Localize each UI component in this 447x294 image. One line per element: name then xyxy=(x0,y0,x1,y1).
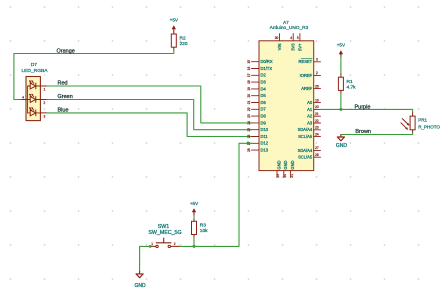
svg-text:D8: D8 xyxy=(261,114,267,119)
svg-text:220: 220 xyxy=(180,41,188,47)
wire switch pin1 to GND riser xyxy=(140,246,151,271)
svg-text:GND: GND xyxy=(283,160,288,169)
svg-text:D7: D7 xyxy=(261,107,267,112)
A7 right pins RESET IOREF AREF A0-A3 SDA SCL xyxy=(314,61,321,63)
power +5V (R2) xyxy=(170,18,179,35)
Arduino module A7 Arduino_UNO_R3 xyxy=(247,20,321,177)
svg-text:AREF: AREF xyxy=(301,86,312,91)
svg-text:3: 3 xyxy=(44,115,46,119)
svg-text:4: 4 xyxy=(22,95,24,99)
ground GND (photoresistor) xyxy=(336,135,348,150)
svg-text:SCL/A5: SCL/A5 xyxy=(298,155,313,160)
svg-text:20: 20 xyxy=(247,94,251,98)
svg-text:Blue: Blue xyxy=(58,108,69,114)
svg-text:15: 15 xyxy=(247,60,251,64)
SW1 contacts and pins 1,2 xyxy=(156,245,158,247)
svg-text:R3: R3 xyxy=(200,223,206,229)
svg-text:D12: D12 xyxy=(261,141,269,146)
svg-text:R1: R1 xyxy=(347,79,353,85)
svg-text:2: 2 xyxy=(174,242,176,246)
LED D7 LED_RGBA xyxy=(21,62,48,121)
svg-text:3V3: 3V3 xyxy=(291,43,296,51)
svg-text:1: 1 xyxy=(151,242,153,246)
svg-text:GND: GND xyxy=(290,160,295,169)
wire R3 bottom to switch row xyxy=(193,238,195,247)
D7 pins 1,2,3,4 xyxy=(40,85,46,87)
svg-text:D7: D7 xyxy=(31,62,38,68)
svg-text:21: 21 xyxy=(315,112,319,116)
svg-text:19: 19 xyxy=(247,87,251,91)
svg-text:Green: Green xyxy=(58,94,73,100)
svg-text:26: 26 xyxy=(315,84,319,88)
svg-text:D13: D13 xyxy=(261,148,269,153)
svg-text:+5V: +5V xyxy=(170,18,179,23)
svg-text:SDA/A4: SDA/A4 xyxy=(298,127,313,132)
wire orange net: R2 to LED pin 4 xyxy=(14,50,174,99)
svg-text:4: 4 xyxy=(290,36,292,40)
svg-text:PR1: PR1 xyxy=(418,118,427,123)
svg-text:D3: D3 xyxy=(261,80,267,85)
svg-text:21: 21 xyxy=(247,101,251,105)
D7 body xyxy=(26,77,40,121)
svg-text:R_PHOTO: R_PHOTO xyxy=(418,124,440,129)
junction at R3 bottom xyxy=(193,245,196,248)
svg-text:D1/TX: D1/TX xyxy=(261,66,273,71)
svg-text:4.7k: 4.7k xyxy=(347,85,357,91)
wire red net: LED pin1 to D9 xyxy=(47,86,252,123)
photoresistor PR1 R_PHOTO xyxy=(401,113,440,133)
svg-text:20: 20 xyxy=(315,105,319,109)
svg-text:R2: R2 xyxy=(180,36,186,42)
svg-text:24: 24 xyxy=(247,121,251,125)
svg-text:2: 2 xyxy=(44,101,46,105)
wire blue net: LED pin3 to D11 xyxy=(47,113,252,137)
D7 internal LED symbols xyxy=(30,83,36,89)
svg-text:5: 5 xyxy=(297,36,299,40)
svg-text:A1: A1 xyxy=(307,107,313,112)
svg-text:D4: D4 xyxy=(261,86,267,91)
svg-text:D0/RX: D0/RX xyxy=(261,59,273,64)
svg-text:30: 30 xyxy=(283,174,287,178)
power +5V (R3) xyxy=(190,201,199,216)
svg-text:A0: A0 xyxy=(307,100,313,105)
svg-text:28: 28 xyxy=(247,148,251,152)
wire +5V to R3 xyxy=(193,216,195,220)
junction R1/A1 xyxy=(339,108,342,111)
svg-text:23: 23 xyxy=(315,126,319,130)
svg-text:D6: D6 xyxy=(261,100,267,105)
svg-text:RESET: RESET xyxy=(299,59,313,64)
wire A1 to photoresistor xyxy=(321,109,413,112)
svg-text:LED_RGBA: LED_RGBA xyxy=(21,68,48,74)
resistor R2 220 xyxy=(171,34,188,50)
svg-text:25: 25 xyxy=(247,128,251,132)
svg-text:SW_MEC_5G: SW_MEC_5G xyxy=(148,230,181,236)
svg-text:D5: D5 xyxy=(261,93,267,98)
svg-text:18: 18 xyxy=(247,80,251,84)
ground GND (switch) xyxy=(135,271,147,289)
svg-text:Orange: Orange xyxy=(57,48,75,54)
svg-text:28: 28 xyxy=(315,153,319,157)
svg-text:D2: D2 xyxy=(261,73,267,78)
A7 bottom pins GND xyxy=(276,171,278,178)
svg-text:22: 22 xyxy=(247,107,251,111)
switch SW1 SW_MEC_5G xyxy=(148,224,181,247)
svg-text:Arduino_UNO_R3: Arduino_UNO_R3 xyxy=(270,25,309,31)
svg-text:27: 27 xyxy=(315,146,319,150)
A7 body xyxy=(259,41,314,171)
svg-text:GND: GND xyxy=(135,283,147,289)
svg-text:+5V: +5V xyxy=(190,201,199,206)
resistor R1 4.7k xyxy=(338,74,356,94)
wire +5V to R1 xyxy=(340,57,342,74)
svg-text:+5V: +5V xyxy=(337,42,346,47)
svg-text:31: 31 xyxy=(290,174,294,178)
R2 pin stub xyxy=(173,47,175,50)
SW1 actuator bar xyxy=(156,242,171,244)
svg-text:SDA/A4: SDA/A4 xyxy=(298,148,313,153)
svg-text:3: 3 xyxy=(316,58,318,62)
svg-text:29: 29 xyxy=(276,174,280,178)
svg-text:17: 17 xyxy=(247,73,251,77)
svg-text:SW1: SW1 xyxy=(158,224,170,230)
svg-text:A3: A3 xyxy=(307,120,313,125)
svg-text:Brown: Brown xyxy=(355,129,371,135)
svg-text:19: 19 xyxy=(315,98,319,102)
svg-text:30: 30 xyxy=(275,36,279,40)
power +5V (R1) xyxy=(337,42,346,56)
svg-text:A2: A2 xyxy=(307,114,313,119)
svg-text:22: 22 xyxy=(315,119,319,123)
svg-text:D10: D10 xyxy=(261,127,269,132)
A7 top pins VIN 3V3 5V xyxy=(279,34,281,41)
wire R1 bottom to A1 wire xyxy=(340,94,342,110)
svg-text:10k: 10k xyxy=(200,228,208,234)
svg-text:2: 2 xyxy=(316,71,318,75)
svg-text:Purple: Purple xyxy=(355,104,371,110)
junction at D12 pin xyxy=(247,142,250,145)
junction at switch pin 1 xyxy=(149,245,152,248)
svg-text:A7: A7 xyxy=(283,20,289,26)
wire switch net: D12 down to switch row xyxy=(179,143,252,246)
svg-text:26: 26 xyxy=(247,135,251,139)
wire photoresistor bottom to GND xyxy=(341,133,413,135)
svg-text:VIN: VIN xyxy=(277,43,282,50)
svg-text:D9: D9 xyxy=(261,120,267,125)
svg-text:5V+: 5V+ xyxy=(297,43,302,51)
resistor R3 10k xyxy=(192,219,209,238)
svg-text:23: 23 xyxy=(247,114,251,118)
svg-text:IOREF: IOREF xyxy=(300,73,313,78)
svg-text:Red: Red xyxy=(58,81,68,87)
svg-text:D11: D11 xyxy=(261,134,269,139)
svg-text:16: 16 xyxy=(247,67,251,71)
svg-text:24: 24 xyxy=(315,132,319,136)
svg-text:SCL/A5: SCL/A5 xyxy=(298,134,313,139)
svg-text:GND: GND xyxy=(336,143,348,149)
svg-text:GND: GND xyxy=(276,160,281,169)
A7 left pins D0-D13 with numbers 15-28 xyxy=(252,61,260,63)
svg-text:1: 1 xyxy=(44,88,46,92)
wire green net: LED pin2 to D10 xyxy=(47,100,252,130)
